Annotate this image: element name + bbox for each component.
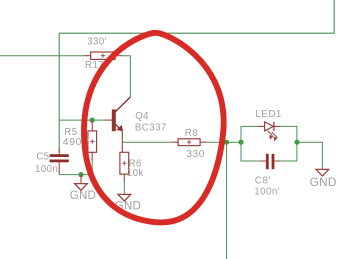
wire LED right to GND3 (297, 142, 322, 169)
wire R5 bottom to gnd rail (59, 160, 92, 175)
wire base net horizontal (59, 119, 104, 121)
ground GND2 (118, 194, 131, 201)
svg-text:Q4: Q4 (135, 111, 149, 122)
svg-text:BC337: BC337 (135, 123, 167, 134)
resistor R8 (178, 139, 200, 146)
node LED-left junction dot (238, 140, 243, 145)
wire LED / C8 parallel loop (241, 126, 297, 161)
node gnd-left junction dot (78, 172, 83, 177)
pin R8 right stub (200, 141, 207, 143)
svg-text:330′: 330′ (87, 36, 107, 47)
svg-text:100n: 100n (35, 164, 58, 175)
pin R17 right stub (115, 55, 122, 57)
pin R5 bottom stub (91, 152, 93, 160)
node base junction dot (90, 118, 95, 123)
svg-text:10k: 10k (127, 168, 144, 179)
wire R8 to LED node (207, 141, 241, 143)
resistor R6 (120, 152, 129, 174)
wire top net: right vertical, top horizontal, left vertical down to C5 (59, 0, 334, 152)
transistor Q4 base pin (104, 119, 112, 121)
resistor R17 (91, 52, 115, 59)
ground GND3 (316, 169, 329, 176)
svg-text:LED1: LED1 (255, 109, 282, 120)
pin R17 left stub (84, 55, 91, 57)
svg-text:C8′: C8′ (255, 175, 271, 186)
svg-text:100n′: 100n′ (254, 187, 280, 198)
pin R8 left stub (172, 141, 179, 143)
transistor Q4 body (112, 97, 130, 131)
annotation red ellipse (84, 33, 224, 223)
pin R6 bottom stub (123, 174, 125, 181)
wire emitter down to R6 (121, 131, 123, 152)
wire R17 left from screenshot edge (0, 55, 84, 57)
svg-text:C5: C5 (36, 151, 49, 162)
node LED-right junction dot (294, 140, 299, 145)
resistor R5 (88, 131, 97, 152)
svg-text:R8: R8 (185, 128, 198, 139)
svg-text:330: 330 (186, 149, 205, 160)
wire R6 to ground (123, 181, 125, 194)
LED LED1 (258, 122, 280, 141)
pin C5 bottom stub (58, 162, 60, 174)
capacitor C5 (50, 154, 69, 162)
wire R17 to collector (122, 56, 130, 97)
pin R5 top stub (91, 120, 93, 131)
svg-text:GND: GND (70, 190, 96, 202)
ground GND1 (80, 175, 82, 184)
svg-text:GND: GND (310, 175, 337, 189)
wire down to bottom edge (226, 142, 228, 259)
pin C5 top stub (58, 149, 60, 155)
capacitor C8 (266, 154, 275, 169)
pin C8 stubs (260, 160, 281, 162)
wire emitter node to R8 (122, 141, 171, 143)
node mid junction dot (224, 140, 229, 145)
